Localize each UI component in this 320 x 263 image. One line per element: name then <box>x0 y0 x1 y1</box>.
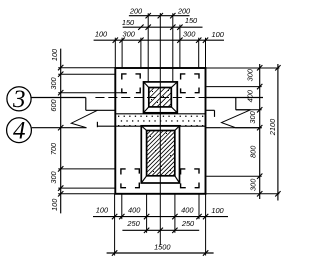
svg-text:300: 300 <box>248 110 257 123</box>
svg-text:3: 3 <box>12 86 26 113</box>
svg-text:400: 400 <box>128 206 141 215</box>
top dimension row 100|300 300|100 <box>94 30 225 43</box>
top extension lines <box>115 13 205 82</box>
svg-text:100: 100 <box>50 198 59 211</box>
right extension lines <box>206 68 280 194</box>
anchor plate dashed square top-left <box>122 74 140 93</box>
right overall dimension 2100 <box>268 64 281 201</box>
grout band dot texture <box>118 116 203 127</box>
svg-text:100: 100 <box>96 206 109 215</box>
column below (socket outline + section) <box>141 126 179 183</box>
column above (socket outline + section) <box>144 82 178 113</box>
bottom extension lines <box>115 194 206 256</box>
bottom dimension row 250|250 <box>122 219 199 233</box>
svg-text:250: 250 <box>126 219 140 228</box>
svg-text:100: 100 <box>50 48 59 61</box>
svg-text:100: 100 <box>212 30 225 39</box>
left extension lines <box>58 68 122 194</box>
top dimension row 200|200 <box>129 7 191 19</box>
svg-text:800: 800 <box>248 145 257 158</box>
svg-text:300: 300 <box>49 170 58 183</box>
hatching of column below <box>147 131 175 176</box>
svg-text:300: 300 <box>248 178 257 191</box>
top dimension row 150|150 <box>122 16 203 30</box>
left dimension chain 100/300/600/700/300/100 <box>49 48 64 213</box>
svg-text:250: 250 <box>181 219 195 228</box>
svg-text:600: 600 <box>49 98 58 111</box>
svg-text:200: 200 <box>129 7 143 16</box>
bottom dimension row 100|400 400|100 <box>93 206 228 220</box>
axis marker circle 3 <box>7 86 31 113</box>
svg-text:700: 700 <box>49 142 58 155</box>
break symbol right <box>222 98 251 128</box>
right dimension chain 300/400/300/800/300 <box>246 64 263 199</box>
svg-text:400: 400 <box>246 89 255 102</box>
anchor plate dashed square top-right <box>181 74 199 93</box>
svg-text:100: 100 <box>95 30 108 39</box>
svg-text:150: 150 <box>122 18 135 27</box>
svg-text:300: 300 <box>123 30 136 39</box>
axis line 3 (horizontal) <box>31 97 263 99</box>
hatching of column above <box>149 88 172 107</box>
foundation slab outline <box>115 68 205 194</box>
concrete dots in sections <box>149 90 171 172</box>
grout band edges <box>86 110 215 127</box>
bottom dimension row 1500 <box>107 243 214 256</box>
svg-text:400: 400 <box>181 206 194 215</box>
axis line 4 (horizontal) <box>32 127 262 129</box>
svg-text:150: 150 <box>185 16 198 25</box>
svg-text:300: 300 <box>49 76 58 89</box>
vertical center axis <box>159 13 161 245</box>
anchor plate dashed square bottom-left <box>121 169 139 188</box>
break symbol left <box>71 98 97 128</box>
svg-text:100: 100 <box>211 206 224 215</box>
anchor plate dashed square bottom-right <box>181 169 199 188</box>
svg-text:2100: 2100 <box>268 118 277 136</box>
svg-text:300: 300 <box>183 30 196 39</box>
svg-text:200: 200 <box>177 7 191 16</box>
svg-text:4: 4 <box>13 117 26 144</box>
svg-text:1500: 1500 <box>154 243 171 252</box>
axis marker circle 4 <box>7 117 32 144</box>
svg-text:300: 300 <box>246 68 255 81</box>
